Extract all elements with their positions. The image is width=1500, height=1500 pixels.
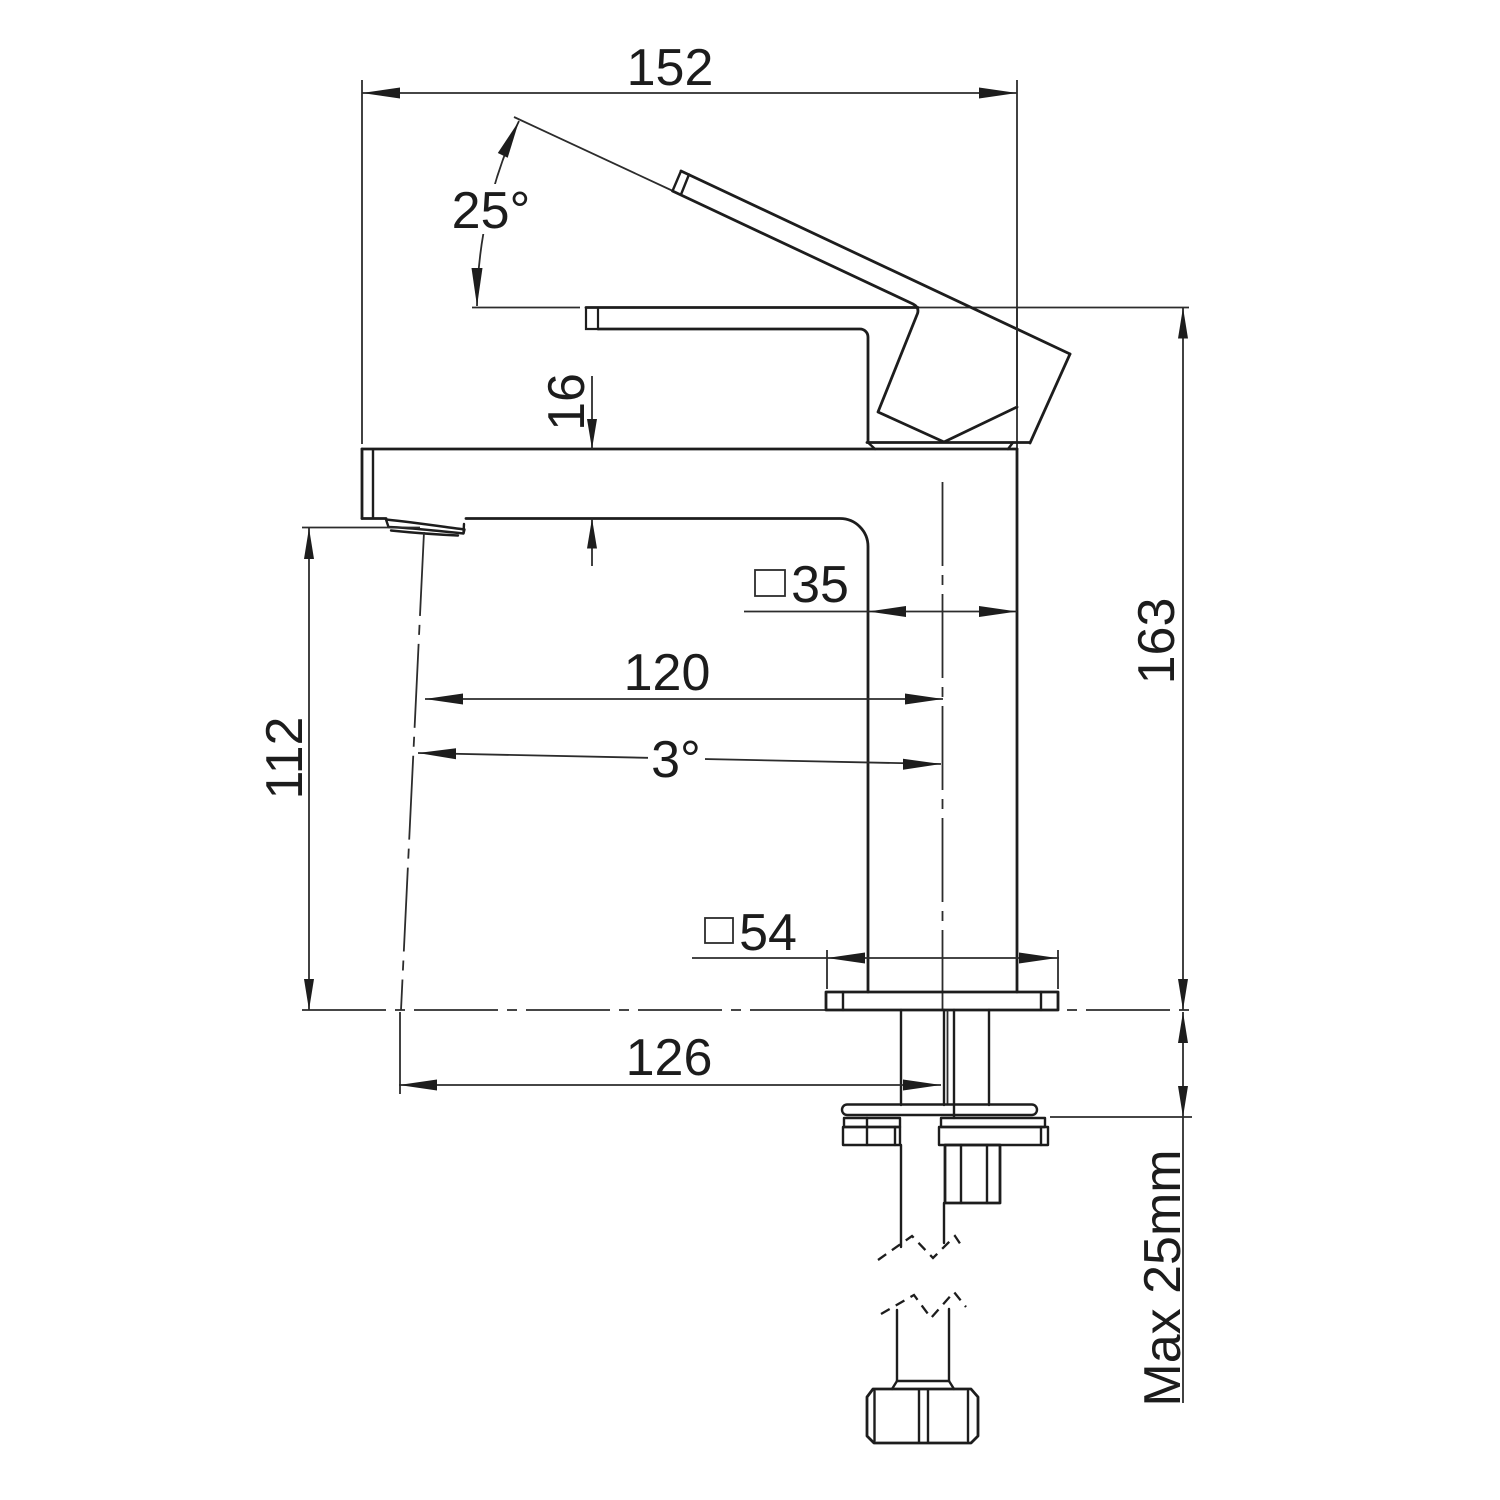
svg-text:163: 163 — [1128, 598, 1186, 685]
dimension 152 extension line right — [1016, 80, 1018, 449]
base plate — [826, 992, 1058, 1010]
handle base right chamfer tick — [1008, 443, 1013, 450]
svg-text:54: 54 — [739, 904, 797, 962]
25 degree arc bottom arrow — [472, 268, 483, 306]
dimension square 54 line — [692, 957, 1059, 959]
threaded stud right edge — [953, 1010, 955, 1118]
dimension 16 upper line — [591, 376, 593, 449]
hex bolt head — [945, 1145, 1000, 1203]
dimension 163 line — [1182, 308, 1184, 1011]
upper break zigzag — [878, 1236, 963, 1260]
3 degree left arrow — [418, 748, 456, 759]
dimension 16 lower arrow — [587, 519, 597, 549]
body front face — [361, 449, 364, 519]
bench top dash-dot line — [302, 1009, 1189, 1011]
dimension 54 right extension — [1057, 950, 1059, 989]
lower stud right taper — [949, 1381, 954, 1389]
spout blade bottom edge — [598, 329, 868, 443]
dimension 112 bottom arrow — [304, 979, 314, 1010]
lower stud left taper — [892, 1381, 897, 1389]
handle lever top edge — [681, 171, 1070, 354]
25 degree arc top arrow — [498, 121, 519, 158]
dimension 163 top arrow — [1178, 308, 1188, 339]
lower stud bottom line — [897, 1380, 949, 1382]
left bracket inner line 1 — [866, 1118, 868, 1145]
aerator inner edge — [462, 524, 465, 533]
dimension 163 bottom arrow — [1178, 979, 1188, 1010]
bottom hex nut face line 3 — [927, 1390, 929, 1442]
body front face inner line — [372, 450, 374, 518]
svg-text:120: 120 — [624, 644, 711, 702]
lower tube left wall — [900, 1145, 902, 1247]
dimension 126 left arrow — [399, 1080, 437, 1091]
bottom hex nut outline — [867, 1389, 978, 1443]
bottom hex nut face line 2 — [918, 1390, 920, 1442]
dimension 35 right arrow — [979, 606, 1017, 617]
lower threaded stud left edge — [896, 1310, 898, 1381]
lower threaded stud right edge — [948, 1309, 950, 1381]
handle base left chamfer tick — [868, 443, 875, 450]
dimension 3 degree leader line — [418, 753, 941, 764]
hex bolt head face line 2 — [986, 1145, 988, 1203]
handle base bottom line — [867, 441, 1030, 444]
square symbol 54 — [705, 918, 733, 943]
dimension 152 left arrow — [362, 88, 400, 99]
left mounting bracket top strip — [844, 1118, 900, 1127]
dimension 112 top arrow — [304, 528, 314, 559]
lower tube right wall — [943, 1203, 945, 1243]
bottom hex nut face line 4 — [967, 1391, 969, 1441]
dimension 152 right arrow — [979, 88, 1017, 99]
3 degree label background — [648, 737, 705, 783]
svg-text:35: 35 — [791, 556, 849, 614]
vertical centerline of body — [942, 482, 944, 1010]
max 25mm leader line — [1182, 1117, 1184, 1403]
dimension 16 lower line — [591, 519, 593, 567]
right bracket inner line — [1040, 1127, 1042, 1145]
lower break zigzag — [881, 1292, 966, 1318]
right mounting bracket top strip — [941, 1118, 1045, 1127]
3 degree right arrow — [903, 759, 941, 770]
dimension 126 right arrow — [903, 1080, 941, 1091]
hex bolt head face line 1 — [960, 1145, 962, 1203]
handle lever end cap — [673, 171, 682, 191]
svg-text:16: 16 — [538, 373, 596, 431]
base plate left edge line — [842, 992, 844, 1010]
svg-text:126: 126 — [626, 1029, 713, 1087]
body top line — [362, 448, 1017, 451]
dimension 120 left arrow — [425, 694, 463, 705]
svg-text:25°: 25° — [452, 182, 531, 240]
25 degree construction line — [514, 117, 673, 191]
square symbol 35 — [755, 570, 785, 596]
dimension 112 extension line — [302, 527, 420, 529]
25 degree dimension arc — [477, 121, 519, 306]
shank tube left wall — [900, 1010, 902, 1105]
svg-text:112: 112 — [256, 717, 314, 800]
dimension 35 left arrow — [868, 606, 906, 617]
washer — [842, 1105, 1037, 1116]
horizontal reference line at spout top — [472, 307, 580, 309]
dimension max 25mm bottom arrow — [1178, 1086, 1188, 1117]
svg-text:Max 25mm: Max 25mm — [1134, 1149, 1192, 1406]
tilted water stream centerline 3 degrees — [401, 532, 424, 1010]
max 25mm extension line at washer — [1050, 1116, 1192, 1118]
dimension 54 left arrow — [827, 953, 865, 964]
dimension 16 upper arrow — [587, 419, 597, 449]
handle lever bottom edge with hinge corner into cartridge — [673, 191, 1018, 442]
bottom hex nut face line 1 — [873, 1391, 875, 1441]
body back edge — [1016, 449, 1019, 992]
aerator outlet lower line — [391, 531, 458, 536]
dimension 54 right arrow — [1019, 953, 1057, 964]
dimension 120 line — [425, 698, 943, 700]
handle lever end cap inner line — [681, 175, 689, 195]
dimension 54 left extension — [826, 950, 828, 989]
dimension max 25mm line — [1182, 1012, 1184, 1117]
spout blade end cap — [586, 308, 598, 330]
dimension max 25mm top arrow — [1178, 1012, 1188, 1043]
aerator outlet — [386, 520, 465, 534]
dimension 152 line — [362, 92, 1017, 94]
dimension 126 extension line — [399, 1012, 401, 1094]
left mounting bracket block — [843, 1127, 900, 1145]
handle back edge — [1030, 354, 1070, 443]
svg-text:3°: 3° — [651, 731, 701, 789]
25 degree label background — [448, 184, 534, 234]
svg-text:152: 152 — [627, 39, 714, 97]
dimension 112 line — [308, 528, 310, 1010]
right mounting bracket block — [939, 1127, 1048, 1145]
base plate right edge line — [1040, 992, 1042, 1010]
threaded stud left edge — [943, 1010, 945, 1105]
cartridge right edge — [1016, 308, 1018, 408]
dimension 120 right arrow — [905, 694, 943, 705]
body overhang bottom edge left part — [362, 517, 386, 520]
dimension 126 line — [399, 1084, 941, 1086]
body overhang bottom edge right part with corner — [466, 519, 868, 993]
centerline continuation in shank — [947, 1010, 949, 1105]
left bracket inner line 2 — [894, 1127, 896, 1145]
shank tube right wall — [988, 1010, 990, 1105]
spout blade top edge — [586, 306, 918, 309]
dimension square 35 line — [744, 611, 1017, 613]
dimension 152 extension line left — [361, 80, 363, 444]
